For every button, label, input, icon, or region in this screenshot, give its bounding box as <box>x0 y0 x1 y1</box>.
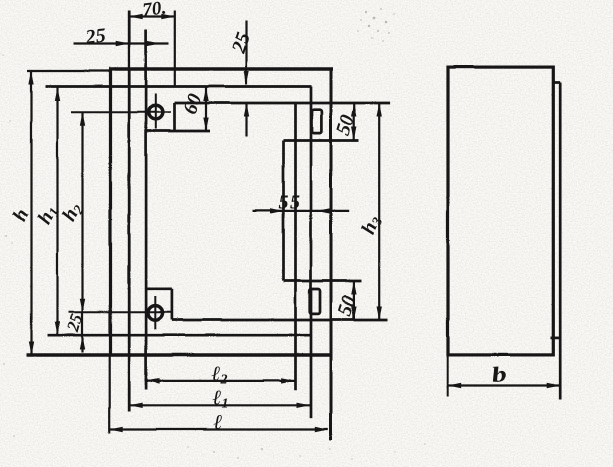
cable flange left edge <box>282 140 285 281</box>
top hole vertical centerline <box>154 93 156 129</box>
bottom mounting hole <box>148 305 163 320</box>
arrow 60 bottom <box>203 117 208 131</box>
door right edge (extends down for l1 dim) <box>309 86 312 418</box>
dimension line h2 <box>81 112 83 312</box>
arrow h bottom <box>28 341 33 355</box>
dimension line 50 bottom <box>352 281 354 320</box>
arrow 25 top-right up <box>243 103 248 117</box>
dimension line 55 <box>252 209 349 211</box>
dimension line h3 <box>378 103 380 320</box>
dimension line 50 top <box>353 103 355 141</box>
arrow l2 left <box>146 378 160 383</box>
arrow h top <box>28 71 33 85</box>
bottom hole horizontal centerline (extends left for h2/25 dims) <box>68 311 171 313</box>
opening bottom-left notch vertical edge <box>170 288 173 319</box>
scan smudge bottom-center <box>187 443 426 460</box>
extension line 70 right <box>173 10 175 86</box>
outer box bottom edge (extends left for h dim) <box>26 353 332 357</box>
dimension line h <box>30 71 32 355</box>
dimension line h1 <box>56 87 58 335</box>
arrow 25 top-left second <box>146 40 160 45</box>
opening top-left notch horizontal edge (extends right for 60 dim) <box>146 129 210 132</box>
outer box left edge <box>108 69 111 355</box>
opening right edge (extends down for l2 dim) <box>294 103 297 390</box>
door left edge (extends up for 70/25 dims and down for l1 dim) <box>127 10 130 411</box>
bottom hinge/latch on door right edge <box>309 289 319 314</box>
arrow h2 bottom <box>79 298 84 312</box>
cable flange top edge (extends right for 50 dim) <box>283 139 358 142</box>
arrow l2 right <box>281 378 295 383</box>
dimension line 60 <box>204 87 206 131</box>
opening top-left notch vertical edge <box>173 103 176 131</box>
scan smudge top-right <box>357 8 394 42</box>
arrow 55 right <box>316 208 330 213</box>
svg-text:ℓ: ℓ <box>213 410 222 434</box>
arrow l left <box>109 426 123 431</box>
top hole horizontal centerline (extends left for h2 dim) <box>71 111 171 113</box>
top hinge/latch on door right edge <box>312 109 322 132</box>
svg-text:55: 55 <box>278 191 301 213</box>
bottom hole vertical centerline <box>154 296 156 330</box>
door bottom edge (extends left for 25 dim) <box>47 333 311 336</box>
dimension line 25 top-right lower part <box>245 103 247 137</box>
arrow l right <box>314 426 328 431</box>
arrow b right <box>546 382 560 387</box>
dimension line l2 <box>146 379 294 381</box>
arrow h3 top <box>376 103 381 117</box>
arrow h1 top <box>54 87 59 101</box>
scan smudge left edge <box>2 54 15 437</box>
outer box top edge <box>109 67 333 70</box>
dimension line 25 bottom-left <box>81 312 83 352</box>
opening left edge (extends up for 25 dim, down for l2 dim) <box>144 29 147 389</box>
extension line box left bottom <box>108 355 110 434</box>
door top edge (extends left for h1 dim) <box>45 85 311 88</box>
arrow 50 top upper <box>351 103 356 117</box>
dimension line b (side view) <box>447 384 560 386</box>
opening bottom edge (extends right for 50/h3 dims) <box>171 318 387 321</box>
dimension line l1 <box>129 404 310 406</box>
arrow 25 top-right down <box>243 71 248 85</box>
outer box right edge (with extension down for l dim) <box>329 69 332 441</box>
arrow 70 left <box>129 13 143 18</box>
arrow 60 top <box>203 87 208 101</box>
side view body outline <box>448 67 553 355</box>
svg-text:70.: 70. <box>141 0 167 21</box>
side view door lip right edge (extends down for b dim) <box>558 82 561 399</box>
arrow b left <box>447 382 461 387</box>
side view door lip bottom edge <box>550 336 560 339</box>
arrow h3 bottom <box>376 306 381 320</box>
arrow 25 top-left first <box>115 40 129 45</box>
opening top edge (extends right for 50/h3 dims) <box>174 101 390 104</box>
arrow 50 bottom lower <box>351 306 356 320</box>
extension line of box top (left) <box>27 69 110 71</box>
arrow 50 bottom upper <box>351 281 356 295</box>
arrow l1 right <box>296 402 310 407</box>
arrow h1 bottom <box>54 321 59 335</box>
svg-text:25: 25 <box>83 24 107 48</box>
opening bottom-left notch horizontal edge <box>146 287 172 290</box>
arrow 70 right <box>161 13 175 18</box>
dimension line 70 <box>129 15 175 17</box>
arrow 50 top lower <box>351 127 356 141</box>
top mounting hole <box>148 105 162 119</box>
arrow h2 top <box>79 112 84 126</box>
dimension line 25 top-right upper part <box>245 20 247 84</box>
dimension line l <box>109 428 328 430</box>
side view b dim left extension <box>446 354 448 396</box>
cable flange bottom edge (extends right for 50 dim) <box>283 279 361 282</box>
arrow 25 bottom-left (points up to door bottom from below) <box>79 336 84 350</box>
side view door lip top edge <box>553 81 560 84</box>
arrow l1 left <box>129 402 143 407</box>
dimension line 25 top-left <box>73 42 168 44</box>
arrow 55 left <box>270 208 284 213</box>
